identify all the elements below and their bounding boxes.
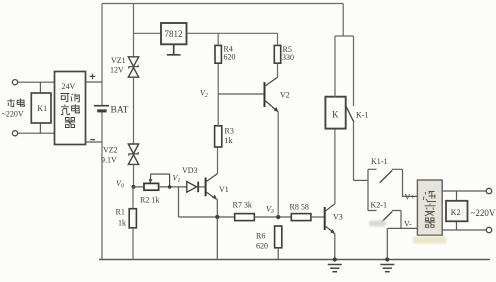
wire: left negative bus down to ground rail <box>101 111 103 259</box>
label: plus terminal of charger <box>90 74 96 80</box>
svg-text:V+: V+ <box>405 193 416 202</box>
svg-text:V3: V3 <box>333 213 343 222</box>
potentiometer R2 1k <box>144 183 159 190</box>
zener VZ1 12V bidirectional <box>128 57 138 77</box>
transistor V2 <box>264 82 266 107</box>
wire: VZ2 to node V0 <box>133 165 135 187</box>
label: 市电 mains <box>7 99 24 108</box>
wire: R1 to ground rail <box>132 228 134 260</box>
svg-text:1k: 1k <box>225 136 233 145</box>
svg-text:R1: R1 <box>116 208 125 217</box>
resistor R3 1k <box>215 126 222 147</box>
resistor R7 3k <box>235 214 255 221</box>
svg-text:K1-1: K1-1 <box>371 157 387 166</box>
terminal: mains input bottom circle <box>12 131 17 136</box>
relay coil K <box>325 97 345 129</box>
relay coil K2 <box>446 201 468 222</box>
svg-text:V0: V0 <box>116 179 124 190</box>
wire: V1 emitter down to bus <box>216 199 218 217</box>
wire: V- to ground <box>386 228 388 259</box>
svg-text:V-: V- <box>404 220 412 229</box>
contact block left rail <box>367 169 369 210</box>
wire: left battery positive rail <box>101 4 103 106</box>
resistor R8 58 <box>291 214 311 221</box>
label: 可调 adjustable <box>61 94 80 102</box>
wire: charger - output <box>86 141 103 143</box>
svg-text:1k: 1k <box>118 219 126 228</box>
wire: base wire to V2 <box>218 93 264 95</box>
wiper of R2 <box>150 174 169 187</box>
svg-text:~220V: ~220V <box>471 208 496 218</box>
wire: R7 to node V3 <box>254 216 291 218</box>
contact K-1 <box>353 36 355 106</box>
terminal: output bottom circle <box>486 227 491 232</box>
wire: inverter output top <box>442 190 486 192</box>
svg-text:R8 58: R8 58 <box>290 203 309 212</box>
wire: R5 bottom to V2 collector <box>277 63 279 77</box>
wire: bottom ground rail <box>99 259 490 261</box>
wire: +12V corner down to R5 <box>277 33 279 45</box>
label: 器 <box>425 218 435 227</box>
diode VD3 <box>187 182 197 193</box>
wire: 7812 input <box>134 32 162 34</box>
svg-text:R2 1k: R2 1k <box>140 196 159 205</box>
terminal: output top circle <box>486 188 491 193</box>
svg-text:VZ2: VZ2 <box>103 146 118 155</box>
node: ground junction right <box>385 257 389 261</box>
regulator 7812 <box>161 23 187 44</box>
wire: K top to header <box>334 36 336 97</box>
wire: between VZ1 and VZ2 <box>133 78 135 145</box>
svg-text:VD3: VD3 <box>182 166 198 175</box>
svg-text:9.1V: 9.1V <box>101 156 117 165</box>
wire: K1 coil bottom stub <box>39 123 41 133</box>
wire: charger + output <box>86 81 103 83</box>
svg-text:K2-1: K2-1 <box>371 201 387 210</box>
svg-text:7812: 7812 <box>165 29 183 39</box>
wire: K-1 to contact block <box>354 179 369 181</box>
label: 变 <box>425 204 436 216</box>
wire: V3 collector to K coil <box>334 129 336 205</box>
svg-text:K-1: K-1 <box>356 111 368 120</box>
contact K2-1 <box>368 210 401 212</box>
wire: R4 top stub <box>217 33 219 45</box>
wire: top +24V rail <box>102 3 343 5</box>
svg-text:V1: V1 <box>219 185 229 194</box>
terminal: mains input top circle <box>12 80 17 85</box>
svg-text:V2: V2 <box>200 89 208 100</box>
wire: VD3 to V1 base <box>198 186 205 188</box>
wire: R6 to ground rail <box>277 248 279 260</box>
wire: feed from top rail <box>342 4 344 37</box>
yellow smudge under inverter <box>413 237 446 244</box>
wire: K2-1 to V- <box>400 211 402 229</box>
wire: node V2 to R3 <box>217 94 219 126</box>
wire: V0 down to R1 <box>132 187 134 209</box>
node V1' wiper junction <box>168 185 172 189</box>
wire: header bar <box>335 35 354 37</box>
relay coil K1 <box>31 93 51 123</box>
svg-text:24V: 24V <box>62 82 76 91</box>
ground of 7812 <box>167 44 181 55</box>
label: 器 device <box>65 118 75 128</box>
svg-text:V1: V1 <box>173 174 181 185</box>
svg-text:V3: V3 <box>266 205 274 216</box>
wire: mains top lead <box>18 81 55 83</box>
zener VZ2 9.1V bidirectional <box>128 144 138 164</box>
svg-text:620: 620 <box>256 242 268 251</box>
charger box 24V <box>55 72 86 145</box>
ground symbol right <box>380 265 394 272</box>
wire: mains bottom lead <box>18 132 55 134</box>
node V0 junction <box>132 185 136 189</box>
svg-text:R6: R6 <box>256 232 265 241</box>
svg-text:12V: 12V <box>110 66 124 75</box>
svg-text:620: 620 <box>224 53 236 62</box>
resistor R6 620 <box>275 226 282 248</box>
ground symbol left <box>328 265 342 272</box>
wire: R8 to V3 base <box>311 216 324 218</box>
svg-text:K2: K2 <box>451 208 461 217</box>
resistor R1 1k <box>129 209 136 228</box>
svg-text:R3: R3 <box>225 127 234 136</box>
wire: V1 collector up to R3 <box>217 147 219 174</box>
wire: V2 emitter down to node F3 <box>277 112 279 218</box>
transistor V3 <box>324 207 326 230</box>
node: V1 emitter junction <box>215 215 219 219</box>
wire: R4 bottom to node V2 <box>217 63 219 94</box>
label: 逆 <box>424 192 437 202</box>
svg-text:K: K <box>332 110 339 120</box>
svg-text:V2: V2 <box>280 91 290 100</box>
wire: K2 stubs <box>456 191 458 230</box>
wire: K1 coil top stub <box>39 82 41 93</box>
label: 充电 charging <box>61 104 80 114</box>
label: minus terminal of charger <box>90 139 95 141</box>
wire: inverter output bottom <box>442 229 486 231</box>
node: F3 junction <box>276 215 280 219</box>
svg-text:R7 3k: R7 3k <box>233 201 252 210</box>
wire: R2 right to VD3 <box>159 186 187 188</box>
faint watermark smudge <box>369 221 386 227</box>
svg-text:K1: K1 <box>37 104 47 113</box>
battery BAT <box>94 105 109 107</box>
wire: V0 to R2 <box>134 186 145 188</box>
svg-text:BAT: BAT <box>111 106 129 116</box>
wire: K1-1 to V+ <box>403 169 418 196</box>
transistor V1 <box>205 178 207 197</box>
wire: +12V line to R4/R5 <box>187 32 278 34</box>
inverter box <box>417 180 442 235</box>
svg-text:VZ1: VZ1 <box>111 56 126 65</box>
wire: drop from VD3 line to emitter bus <box>178 187 180 217</box>
wire: V3 emitter to ground <box>334 233 336 259</box>
contact K1-1 <box>368 168 403 170</box>
svg-text:330: 330 <box>282 53 294 62</box>
wire: junction down to ground rail <box>216 217 218 260</box>
resistor R4 620 <box>215 45 221 63</box>
resistor R5 330 <box>274 45 280 63</box>
svg-text:~220V: ~220V <box>2 110 24 119</box>
wire: emitter bus horizontal <box>179 216 235 218</box>
wire: V- line <box>387 227 417 229</box>
node: emitter ground junction <box>333 257 337 261</box>
wire: zener branch from top rail <box>133 4 135 58</box>
